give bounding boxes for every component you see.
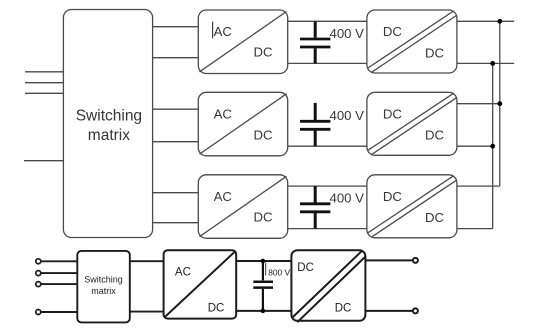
svg-text:AC: AC xyxy=(175,266,191,278)
svg-text:matrix: matrix xyxy=(91,286,116,296)
svg-text:400 V: 400 V xyxy=(330,108,365,123)
svg-text:400 V: 400 V xyxy=(330,191,365,206)
svg-text:DC: DC xyxy=(208,303,225,315)
svg-text:DC: DC xyxy=(425,45,445,60)
svg-text:DC: DC xyxy=(425,128,445,143)
svg-text:Switching: Switching xyxy=(84,274,123,284)
svg-text:400 V: 400 V xyxy=(330,26,365,41)
svg-text:DC: DC xyxy=(297,262,314,274)
svg-text:DC: DC xyxy=(425,210,445,225)
svg-text:DC: DC xyxy=(383,107,403,122)
svg-text:DC: DC xyxy=(383,24,403,39)
svg-text:AC: AC xyxy=(214,24,233,39)
svg-text:DC: DC xyxy=(253,209,273,224)
svg-text:DC: DC xyxy=(253,45,273,60)
svg-text:DC: DC xyxy=(253,127,273,142)
svg-text:Switching: Switching xyxy=(76,108,142,125)
svg-text:AC: AC xyxy=(214,107,233,122)
svg-text:matrix: matrix xyxy=(88,127,130,144)
svg-text:DC: DC xyxy=(335,302,352,314)
svg-text:800 V: 800 V xyxy=(268,267,290,277)
svg-text:DC: DC xyxy=(383,189,403,204)
svg-text:AC: AC xyxy=(214,189,233,204)
